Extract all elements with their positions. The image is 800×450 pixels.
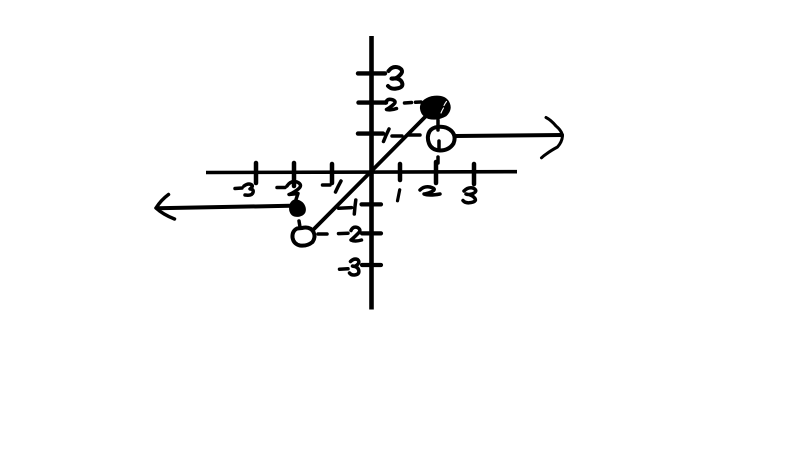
dashed guide y=2 (405, 102, 422, 103)
tick y=-3 (362, 263, 381, 267)
label 2 on x-axis (420, 187, 440, 195)
label 1 on y-axis (384, 129, 390, 142)
tick x=1 (398, 164, 403, 180)
label 1 on x-axis (398, 190, 400, 201)
dashed guide x=2 vertical (438, 120, 439, 163)
tick x=-1 (330, 164, 335, 183)
dashed guide y=-2 (318, 232, 327, 236)
tick x=-2 (292, 163, 297, 186)
label -3 on x-axis (235, 184, 253, 195)
tick y=3 (358, 71, 385, 75)
label -1 on x-axis (323, 181, 342, 192)
tick y=2 (359, 100, 387, 104)
closed point (-2,-1) (290, 201, 304, 216)
open point (-2,-2) (292, 228, 314, 246)
diagonal segment y=x (314, 111, 432, 230)
arrowhead of right ray (542, 118, 563, 158)
tick x=-3 (254, 163, 259, 183)
dashed guide x=-2 vertical (299, 221, 300, 227)
tick x=3 (472, 164, 477, 184)
label -1 on y-axis (339, 200, 356, 214)
label -3 on y-axis (340, 259, 359, 275)
ray y=1 for x>2 (456, 135, 562, 136)
tick x=2 (434, 162, 439, 183)
label 2 on y-axis (386, 99, 397, 110)
open point (2,1) (428, 127, 455, 151)
tick y=-1 (362, 202, 382, 206)
x-axis (206, 170, 517, 174)
dashed guide y=1 (392, 135, 420, 136)
label 3 on x-axis (463, 188, 476, 203)
arrowhead of left ray (156, 195, 175, 220)
label -2 on y-axis (339, 227, 362, 241)
closed point (2,2) (421, 97, 449, 118)
tick y=-2 (362, 231, 381, 235)
label 3 on y-axis (388, 67, 402, 89)
y-axis (369, 36, 374, 310)
label -2 on x-axis (277, 182, 301, 200)
ray y=-1 for x<-2 (157, 206, 290, 208)
tick y=1 (358, 131, 383, 135)
